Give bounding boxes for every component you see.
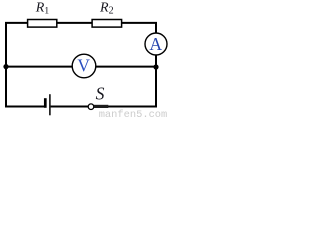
wire bottom middle (battery to switch) [51, 106, 89, 108]
switch S pivot circle [88, 104, 94, 110]
wire top [5, 22, 157, 24]
battery positive plate (long thin) [49, 94, 51, 115]
resistor R1 [28, 20, 57, 28]
wire bottom right (switch to right corner) [108, 106, 157, 108]
battery negative plate (short thick) [44, 98, 47, 108]
switch S blade [94, 105, 108, 108]
voltmeter V [72, 54, 96, 78]
resistor R2 [92, 20, 122, 28]
wire left [5, 22, 7, 108]
ammeter A [145, 33, 167, 55]
svg-text:V: V [77, 56, 90, 76]
svg-text:R2: R2 [99, 1, 114, 17]
svg-text:S: S [96, 84, 105, 104]
wire bottom left (battery to left corner) [5, 106, 45, 108]
wire right [155, 22, 157, 108]
svg-text:A: A [149, 34, 162, 54]
node left (junction dot) [3, 64, 8, 69]
node right (junction dot) [153, 64, 158, 69]
wire voltmeter branch [6, 66, 156, 68]
svg-text:R1: R1 [35, 1, 50, 17]
svg-text:manfen5.com: manfen5.com [99, 109, 168, 118]
